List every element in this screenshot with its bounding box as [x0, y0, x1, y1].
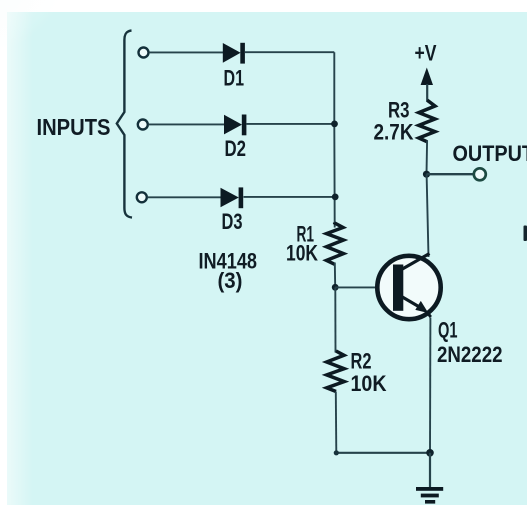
- input terminal 1: [139, 48, 149, 58]
- wire R2 to bottom corner: [335, 392, 338, 453]
- resistor R3: [419, 100, 435, 142]
- Q1 base bar: [393, 265, 403, 311]
- node bottom-left corner: [334, 450, 339, 455]
- svg-text:D3: D3: [222, 209, 243, 234]
- svg-text:10K: 10K: [351, 371, 387, 396]
- wire R3 to output node: [426, 141, 429, 175]
- +V arrow: [421, 68, 433, 102]
- svg-text:(3): (3): [218, 268, 243, 293]
- wire base node down to R2: [334, 287, 336, 352]
- wire R1 to base node: [334, 263, 336, 288]
- wire input3 to D3: [147, 196, 221, 198]
- transistor Q1 body: [377, 256, 440, 319]
- wire input1 to D1: [149, 51, 225, 53]
- emitter wire down: [429, 318, 431, 453]
- resistor R2: [327, 351, 345, 392]
- svg-text:D2: D2: [225, 136, 247, 161]
- Q1 collector lead: [402, 254, 430, 270]
- node emitter/ground junction: [426, 449, 434, 457]
- svg-text:10K: 10K: [286, 240, 318, 265]
- bus vertical wire top: [333, 52, 335, 227]
- wire D3 to bus: [244, 196, 336, 198]
- svg-text:2N2222: 2N2222: [437, 342, 503, 367]
- Q1 emitter lead with arrow: [402, 297, 431, 318]
- wire base node to transistor: [335, 286, 379, 288]
- diode D1: [223, 43, 245, 64]
- ground symbol: [416, 487, 443, 504]
- bottom wire to emitter node: [336, 452, 430, 454]
- collector wire down to transistor: [427, 174, 429, 257]
- wire D1 to bus: [245, 51, 334, 53]
- svg-text:R2: R2: [351, 348, 372, 373]
- right-edge clipped mark: [524, 226, 527, 242]
- svg-text:+V: +V: [415, 41, 437, 66]
- svg-text:2.7K: 2.7K: [374, 120, 414, 145]
- ground stem: [429, 453, 431, 488]
- input brace: [117, 31, 132, 218]
- output terminal: [474, 168, 486, 180]
- input terminal 3: [137, 192, 147, 202]
- svg-text:OUTPUT: OUTPUT: [453, 141, 527, 166]
- node D2 junction: [331, 121, 338, 128]
- node base junction: [332, 284, 339, 291]
- resistor R1: [327, 223, 344, 265]
- node output junction: [423, 171, 430, 178]
- node D3 junction: [332, 194, 339, 201]
- wire to output terminal: [427, 173, 475, 175]
- svg-text:Q1: Q1: [438, 317, 458, 342]
- svg-text:INPUTS: INPUTS: [37, 114, 111, 140]
- input terminal 2: [138, 120, 148, 130]
- svg-text:D1: D1: [224, 65, 245, 90]
- wire D2 to bus: [247, 123, 335, 125]
- diode D2: [224, 115, 246, 136]
- wire input2 to D2: [148, 123, 224, 125]
- diode D3: [221, 187, 244, 208]
